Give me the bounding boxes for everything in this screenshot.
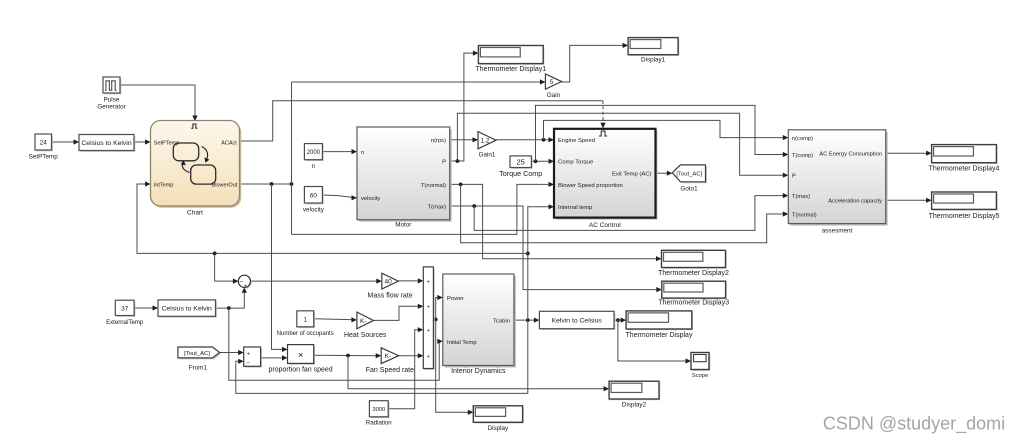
svg-text:1: 1: [303, 316, 307, 323]
svg-text:Tcabin: Tcabin: [493, 319, 510, 325]
svg-text:Goto1: Goto1: [680, 186, 698, 193]
svg-text:Generator: Generator: [97, 104, 125, 111]
Thermometer Display4: [929, 145, 1000, 173]
svg-text:37: 37: [121, 305, 129, 312]
svg-text:SetPTemp: SetPTemp: [154, 140, 179, 146]
svg-text:24: 24: [40, 140, 48, 147]
Display2: [609, 381, 660, 408]
svg-text:Celsius to Kelvin: Celsius to Kelvin: [81, 140, 131, 147]
svg-text:T(normal): T(normal): [421, 183, 446, 189]
wire sum to product bottom input: [261, 355, 288, 360]
wire Chart ACAct to AC Control trigger (dashed tail): [240, 101, 606, 141]
wire Celsius to Kelvin to Chart SetPTemp: [134, 139, 151, 144]
svg-text:Thermometer Display1: Thermometer Display1: [475, 66, 546, 73]
svg-text:Gain1: Gain1: [479, 152, 496, 159]
svg-text:n: n: [361, 150, 364, 156]
svg-text:×: ×: [298, 350, 304, 361]
Interior Dynamics subsystem: [443, 274, 516, 375]
wire Tcabin bus to Chart IntTemp: [137, 181, 528, 255]
svg-text:Thermometer Display3: Thermometer Display3: [658, 300, 729, 307]
Motor subsystem: [357, 127, 452, 229]
svg-text:Display: Display: [488, 425, 509, 432]
svg-text:Torque Comp: Torque Comp: [499, 169, 542, 178]
wire constant 37 to Celsius to Kelvin 2: [134, 305, 158, 310]
svg-text:Thermometer Display2: Thermometer Display2: [658, 270, 729, 277]
Thermometer Display: [626, 311, 693, 339]
Pulse Generator block: [97, 77, 125, 111]
wire BlowerOut to product top input: [272, 184, 288, 352]
svg-text:Radiation: Radiation: [366, 420, 392, 427]
svg-text:ExternalTemp: ExternalTemp: [106, 319, 144, 326]
svg-text:T(comp): T(comp): [792, 153, 813, 159]
svg-text:assesment: assesment: [822, 228, 853, 235]
svg-text:Comp Torque: Comp Torque: [558, 160, 594, 166]
svg-text:BlowerOut: BlowerOut: [212, 183, 238, 189]
wire assesment Acceleration capacity to Thermometer Display5: [886, 198, 932, 203]
wire Pulse Generator to Chart trigger: [120, 85, 198, 121]
Celsius to Kelvin 2 block: [158, 300, 217, 318]
wire T(max) branch to assesment T(max): [474, 193, 788, 230]
svg-text:AC Control: AC Control: [589, 222, 621, 229]
svg-text:ACAct: ACAct: [221, 140, 237, 146]
constant 3000 Radiation: [366, 401, 392, 427]
svg-text:+: +: [427, 354, 430, 360]
wire Motor T(max) to Thermometer Display3: [450, 204, 662, 292]
wire constant 60 to Motor velocity: [322, 195, 357, 200]
wire Gain 5 to Display1: [562, 43, 629, 82]
wire Tcabin to Kelvin to Celsius: [514, 318, 540, 323]
svg-text:Heat Sources: Heat Sources: [344, 332, 387, 339]
Scope block: [691, 353, 710, 380]
svg-text:[Tout_AC]: [Tout_AC]: [676, 172, 702, 178]
wire Tcabin feedback to sum minus input: [236, 320, 528, 393]
svg-text:Celsius to Kelvin: Celsius to Kelvin: [162, 305, 212, 312]
svg-text:velocity: velocity: [303, 207, 325, 214]
wire SetPTemp 24 to Celsius to Kelvin: [52, 139, 80, 144]
svg-text:+: +: [427, 328, 430, 334]
Kelvin to Celsius block: [539, 311, 615, 330]
Stateflow Chart block: [151, 121, 242, 217]
Goto1 tag [Tout_AC]: [672, 165, 707, 193]
Thermometer Display5: [929, 192, 1000, 220]
svg-text:2000: 2000: [307, 150, 321, 156]
svg-text:Internal temp: Internal temp: [558, 205, 593, 211]
wire constant 2000 to Motor n: [322, 149, 357, 154]
wire product to Fan Speed rate: [314, 353, 382, 358]
svg-text:[Tout_AC]: [Tout_AC]: [184, 351, 210, 357]
svg-text:+: +: [427, 305, 430, 311]
wire Fan Speed rate to Add input 4: [399, 353, 424, 358]
wire Heat Sources to Add input 2: [374, 304, 424, 321]
svg-text:Initial Temp: Initial Temp: [447, 340, 477, 346]
svg-text:Blower Speed proportion: Blower Speed proportion: [558, 183, 623, 189]
svg-text:P: P: [442, 159, 446, 165]
svg-text:P: P: [792, 174, 796, 180]
wire constant 25 to AC Control Comp Torque: [531, 159, 554, 164]
wire Radiation 3000 to Add input 3: [388, 327, 423, 409]
svg-text:1.2: 1.2: [480, 138, 489, 145]
svg-text:Thermometer Display4: Thermometer Display4: [929, 166, 1000, 173]
svg-text:T(max): T(max): [792, 194, 810, 200]
svg-text:Pulse: Pulse: [104, 97, 120, 104]
svg-text:n: n: [312, 163, 316, 170]
wire BlowerOut to Gain 5: [292, 79, 546, 84]
wire Motor P to Thermometer Display1: [450, 51, 479, 163]
CSDN watermark: [823, 414, 1005, 435]
svg-text:Interior Dynamics: Interior Dynamics: [451, 368, 506, 375]
svg-text:Fan Speed rate: Fan Speed rate: [366, 367, 414, 374]
svg-text:+: +: [244, 284, 247, 290]
constant 2000 n: [304, 144, 323, 170]
wire ExternalTemp branch to Interior Dynamics Initial Temp: [229, 308, 443, 380]
svg-text:IntTemp: IntTemp: [154, 183, 174, 189]
svg-text:AC Energy Consumption: AC Energy Consumption: [819, 152, 882, 158]
wire sum circle to Mass flow rate gain: [250, 279, 381, 284]
Gain1 block (1.2): [478, 132, 496, 159]
svg-text:Thermometer Display: Thermometer Display: [626, 332, 693, 339]
wire Celsius to Kelvin 2 to sum circle bottom: [216, 287, 247, 310]
svg-text:Power: Power: [447, 296, 464, 302]
constant 60 velocity: [303, 187, 325, 214]
product block (proportion fan speed): [268, 345, 332, 374]
sum rectangle block: [244, 347, 262, 368]
Fan Speed rate gain: [366, 348, 414, 374]
svg-text:T(max): T(max): [428, 204, 446, 210]
Display: [473, 406, 524, 432]
svg-text:Engine Speed: Engine Speed: [558, 138, 595, 144]
svg-text:n(rps): n(rps): [431, 138, 446, 144]
svg-text:Thermometer Display5: Thermometer Display5: [929, 213, 1000, 220]
wire BlowerOut to AC Control Blower Speed proportion: [292, 182, 555, 235]
svg-text:40: 40: [384, 279, 392, 286]
AC Control subsystem: [554, 129, 658, 229]
wire Comp Torque branch to assesment T(comp): [536, 105, 789, 161]
wire product branch to Display2: [348, 356, 609, 392]
wire Tcabin up to AC Control Internal temp: [526, 204, 554, 320]
svg-text:Gain: Gain: [547, 92, 561, 99]
constant 24 SetPTemp: [29, 134, 59, 161]
wire From1 to sum plus input: [220, 350, 244, 355]
svg-text:3000: 3000: [372, 407, 385, 413]
wire Add output branch to Display: [436, 320, 474, 415]
svg-text:Mass flow rate: Mass flow rate: [368, 293, 413, 300]
wire Motor P branch to assesment P: [457, 113, 788, 178]
Mass flow rate gain: [368, 273, 413, 299]
svg-text:CSDN @studyer_domi: CSDN @studyer_domi: [823, 414, 1005, 435]
wire T(normal) branch to assesment T(normal): [461, 184, 789, 242]
wire Tcabin bus to sum circle left input: [215, 253, 239, 283]
svg-text:proportion fan speed: proportion fan speed: [268, 367, 332, 374]
svg-text:Chart: Chart: [187, 210, 203, 217]
svg-text:Acceleration capacity: Acceleration capacity: [828, 199, 882, 205]
svg-text:5: 5: [550, 79, 554, 86]
wire Mass flow rate to Add input 1: [398, 278, 423, 283]
wire Gain1 to AC Control Engine Speed: [496, 137, 554, 142]
constant 25 Torque Comp: [499, 156, 542, 178]
assesment subsystem: [788, 130, 887, 235]
From1 tag [Tout_AC]: [178, 347, 221, 372]
wire AC Control Exit Temp to Goto1: [656, 171, 673, 176]
svg-text:+: +: [427, 279, 430, 285]
svg-text:T(normal): T(normal): [792, 212, 817, 218]
Celsius to Kelvin block: [79, 135, 135, 152]
svg-text:K-: K-: [385, 353, 392, 360]
wire Engine Speed branch to assesment n(comp): [544, 120, 789, 140]
svg-text:Display2: Display2: [622, 402, 647, 409]
svg-text:25: 25: [517, 157, 525, 166]
svg-text:n(comp): n(comp): [792, 136, 813, 142]
wire assesment AC Energy Consumption to Thermometer Display4: [886, 151, 932, 156]
wire Motor T(normal) to Thermometer Display2: [450, 183, 662, 262]
svg-text:K-: K-: [360, 318, 367, 325]
svg-text:Scope: Scope: [692, 373, 708, 379]
Gain block (5): [545, 74, 561, 99]
svg-text:Display1: Display1: [641, 57, 666, 64]
Thermometer Display3: [658, 281, 729, 306]
svg-text:Kelvin to Celsius: Kelvin to Celsius: [552, 318, 603, 325]
sum circle block: [238, 275, 251, 289]
svg-text:velocity: velocity: [361, 196, 380, 202]
wire BlowerOut vertical riser: [291, 82, 293, 234]
svg-text:Number of occupants: Number of occupants: [277, 331, 334, 337]
svg-text:Motor: Motor: [395, 222, 411, 229]
svg-text:SetPTemp: SetPTemp: [29, 154, 59, 161]
Thermometer Display2: [658, 250, 729, 277]
Display1: [628, 38, 679, 64]
wire Add output to Interior Dynamics Power: [433, 295, 442, 322]
wire constant 1 to Heat Sources: [314, 317, 357, 322]
Add block (tall): [423, 267, 434, 370]
constant 37 ExternalTemp: [106, 300, 144, 326]
wire Kelvin to Celsius to Thermometer Display: [614, 318, 626, 323]
svg-text:Exit Temp (AC): Exit Temp (AC): [612, 172, 652, 178]
svg-text:From1: From1: [189, 365, 208, 372]
Heat Sources gain: [344, 312, 387, 339]
Thermometer Display1: [475, 46, 546, 74]
wire Chart BlowerOut trunk: [240, 182, 294, 186]
wire Motor n(rps) to Gain1: [450, 137, 478, 142]
wire branch to Scope: [618, 320, 691, 364]
constant 1 Number of occupants: [277, 311, 334, 337]
svg-text:60: 60: [310, 192, 318, 199]
